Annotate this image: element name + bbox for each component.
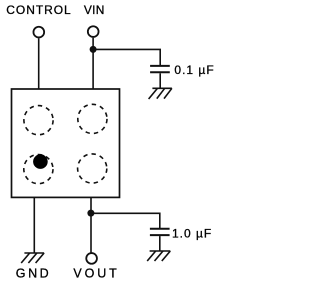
ball B (top-right, dashed) bbox=[78, 104, 107, 133]
svg-text:1.0 µF: 1.0 µF bbox=[172, 227, 212, 241]
node VIN junction bbox=[90, 46, 97, 53]
svg-text:0.1 µF: 0.1 µF bbox=[174, 63, 214, 77]
ball C (bottom-left, dashed) bbox=[24, 155, 53, 184]
IC package U1 bbox=[12, 89, 120, 197]
wire C1 to ground bbox=[159, 73, 161, 88]
svg-text:VIN: VIN bbox=[84, 3, 105, 17]
svg-text:VOUT: VOUT bbox=[73, 267, 119, 281]
terminal VIN bbox=[88, 26, 99, 37]
wire GND pin vertical bbox=[33, 197, 35, 253]
node VOUT junction bbox=[87, 210, 94, 217]
wire C2 to ground bbox=[159, 236, 161, 251]
wire VOUT pin vertical bbox=[90, 197, 92, 252]
wire VOUT to C2 bbox=[91, 213, 160, 228]
svg-text:CONTROL: CONTROL bbox=[6, 3, 71, 17]
ball A (top-left, dashed) bbox=[24, 106, 53, 135]
ground GND pin bbox=[21, 253, 44, 263]
wire VIN to C1 bbox=[93, 49, 160, 65]
capacitor C2 1.0uF bbox=[150, 228, 170, 230]
svg-text:GND: GND bbox=[16, 267, 51, 281]
wire CONTROL vertical bbox=[38, 38, 40, 89]
capacitor C1 0.1uF bbox=[150, 65, 170, 67]
wire VIN vertical bbox=[92, 38, 94, 89]
terminal VOUT bbox=[86, 253, 97, 264]
pin 1 index dot bbox=[33, 154, 48, 169]
ball D (bottom-right, dashed) bbox=[78, 154, 107, 183]
terminal CONTROL bbox=[33, 27, 44, 38]
ground under C1 bbox=[149, 88, 172, 99]
ground under C2 bbox=[147, 251, 170, 261]
